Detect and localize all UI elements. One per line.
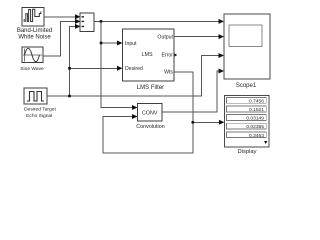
- svg-text:CONV: CONV: [142, 110, 158, 116]
- svg-text:Error: Error: [161, 52, 173, 58]
- svg-text:Scope1: Scope1: [236, 83, 257, 89]
- svg-text:0.02355: 0.02355: [246, 124, 264, 130]
- junction sum out: [100, 20, 103, 23]
- label: Sine Wave: [20, 66, 44, 72]
- label: LMS Filter: [137, 85, 164, 91]
- label: Display: [237, 149, 256, 155]
- svg-text:Wts: Wts: [164, 70, 173, 76]
- svg-text:Desired Target: Desired Target: [24, 107, 56, 113]
- wire: Band-Limited White Noise to Sum in1: [44, 14, 81, 19]
- svg-text:0.1521: 0.1521: [249, 107, 264, 113]
- block: Convolution: [138, 104, 163, 121]
- LMS Error unconnected port arrow: [174, 53, 177, 57]
- block: Desired Target Echo Signal: [24, 88, 47, 104]
- block: Band-Limited White Noise: [22, 8, 44, 27]
- junction echo/up: [68, 95, 71, 98]
- svg-text:0.03149: 0.03149: [246, 116, 264, 122]
- svg-text:Sine Wave: Sine Wave: [20, 66, 44, 72]
- block: Display: [224, 95, 268, 146]
- block: LMS Filter: [123, 29, 175, 81]
- svg-text:White Noise: White Noise: [18, 35, 51, 41]
- svg-text:LMS Filter: LMS Filter: [137, 85, 164, 91]
- svg-text:Desired: Desired: [125, 66, 143, 72]
- wire: echo branch up to Sum in3: [68, 24, 80, 97]
- svg-text:0.3463: 0.3463: [249, 133, 264, 139]
- wire: Echo signal main run to Scope in3: [47, 53, 224, 96]
- svg-text:LMS: LMS: [141, 52, 152, 58]
- wire: echo branch to LMS Desired: [68, 66, 122, 71]
- svg-text:Input: Input: [125, 41, 137, 47]
- svg-text:Convolution: Convolution: [136, 124, 164, 130]
- svg-text:Display: Display: [237, 149, 256, 155]
- wire: Sum output to Scope in1: [94, 19, 224, 24]
- block: Scope: [224, 14, 270, 79]
- svg-text:Output: Output: [157, 34, 173, 40]
- junction wts/display: [192, 121, 195, 124]
- block: Sum (3-input): [80, 13, 94, 32]
- svg-text:Echo Signal: Echo Signal: [26, 113, 52, 119]
- junction input: [100, 42, 103, 45]
- label: Desired Target Echo Signal: [24, 107, 56, 119]
- svg-text:Band-Limited: Band-Limited: [17, 28, 52, 34]
- block: Sine Wave: [22, 47, 43, 63]
- wire: sum signal down to Convolution in1: [101, 21, 138, 110]
- label: Band-Limited White Noise: [17, 28, 52, 41]
- wire: LMS Wts loop to Convolution in2: [103, 72, 193, 153]
- label: Scope1: [236, 83, 257, 89]
- wire: Sine Wave to Sum in2: [43, 19, 81, 56]
- wire: LMS Output to Scope in2: [174, 34, 224, 39]
- junction desired: [68, 67, 71, 70]
- svg-text:0.7456: 0.7456: [249, 98, 264, 104]
- wire: Convolution output to Scope in4: [162, 69, 224, 113]
- label: Convolution: [136, 124, 164, 130]
- wire: Wts branch to Display: [192, 120, 225, 125]
- wire: branch to LMS Input: [100, 41, 123, 46]
